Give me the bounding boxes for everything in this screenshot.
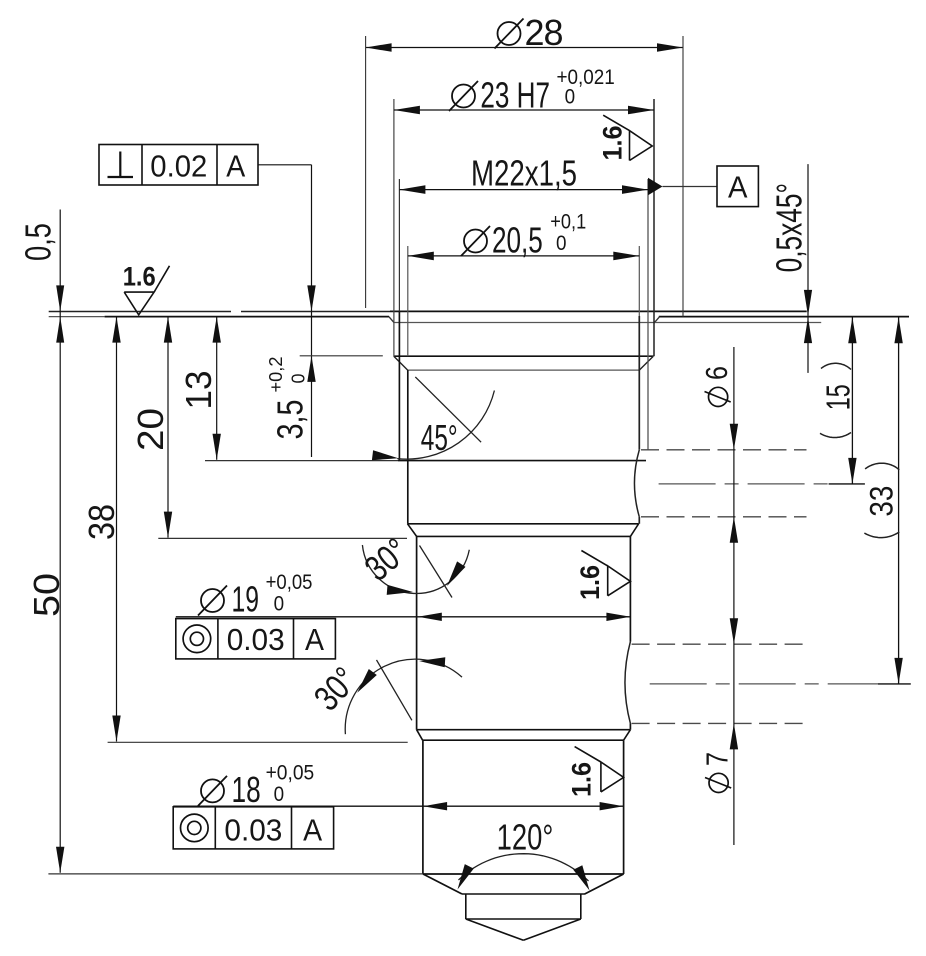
wire d7 centerline landing black [878, 683, 911, 685]
roughness symbol S3 [581, 551, 630, 596]
wire shaft d19 right edge lower [629, 723, 631, 729]
wire tip cone left [423, 874, 462, 894]
dimension 50 and 0.5 line [59, 210, 61, 873]
wire transition2 chamfer left [417, 730, 423, 741]
120deg arc [459, 854, 589, 881]
svg-text:0: 0 [274, 783, 285, 806]
wire d6 hole hidden bottom [641, 516, 807, 518]
svg-text:0.03: 0.03 [224, 812, 282, 847]
wire groove floor y370.15 [408, 369, 639, 371]
svg-text:20,5: 20,5 [492, 220, 543, 261]
svg-text:50: 50 [26, 573, 67, 617]
chamfer dim leader upper [807, 164, 809, 316]
wire shaft d18 right edge [623, 740, 625, 874]
arrow chamfer down [804, 290, 812, 316]
wire transition1 chamfer left [408, 524, 417, 537]
svg-text:A: A [305, 622, 324, 657]
svg-text:+0,05: +0,05 [266, 761, 315, 784]
arrow D20.5 right [613, 252, 639, 261]
wire groove chamfer right [639, 356, 653, 370]
arrow 15 down [848, 458, 856, 484]
arrow d7 down [730, 618, 738, 644]
diameter symbol D19 [201, 589, 224, 612]
wire d7 centerline [650, 683, 878, 685]
svg-text:120°: 120° [497, 817, 554, 858]
arrow d6 up [730, 517, 738, 543]
arrow 38 up [112, 317, 120, 343]
paren 15 upper [821, 363, 851, 369]
45deg arc [397, 391, 494, 460]
wire transition1 top y523.8 [408, 523, 639, 525]
wire bore d23 right x654 [653, 99, 655, 356]
dimension 33 line [898, 317, 900, 684]
arrow 3.5 up [307, 356, 315, 382]
svg-text:15: 15 [820, 384, 857, 410]
dimension 20 landing [158, 537, 407, 539]
svg-text:1.6: 1.6 [575, 565, 605, 600]
svg-text:0: 0 [274, 593, 285, 616]
FCF perpendicularity box [99, 145, 258, 186]
svg-text:23 H7: 23 H7 [480, 75, 550, 116]
wire d6 hole hidden top [641, 449, 807, 451]
svg-text:A: A [303, 812, 322, 847]
arrow 13 down [213, 434, 221, 460]
dimension 15 landing [829, 483, 865, 485]
svg-text:3,5: 3,5 [270, 400, 311, 440]
wire transition1 bottom y536.4 [417, 535, 631, 537]
arrow 20 down [164, 512, 172, 538]
dimension D18 line [173, 805, 623, 807]
wire break arc at d7 hole [625, 642, 630, 724]
paren 33 upper [865, 463, 899, 470]
45deg reference line [415, 377, 481, 442]
dimension D28 line [366, 47, 683, 49]
diameter symbol D28 [498, 22, 521, 45]
label d7 rotated [700, 752, 735, 793]
concentricity symbol D19 [183, 625, 211, 653]
dimension D28 ext right [682, 36, 684, 317]
wire thread major right x648 [647, 179, 649, 450]
dimension D23 line [394, 109, 654, 111]
wire d7 hole hidden bottom [632, 722, 809, 724]
wire shaft bottom y874 [423, 873, 624, 875]
svg-text:0.02: 0.02 [150, 149, 207, 184]
arrow 50 down [56, 847, 64, 873]
svg-text:1.6: 1.6 [567, 762, 597, 797]
svg-text:M22x1,5: M22x1,5 [471, 153, 577, 194]
dimension 50 landing [48, 873, 423, 875]
datum A box [717, 166, 758, 207]
arrow 30deg lower right [419, 657, 445, 667]
dimension D20.5 line [408, 255, 640, 257]
svg-text:0: 0 [556, 232, 567, 255]
dimension D28 ext left [365, 36, 367, 308]
datum A leader [663, 186, 718, 188]
arrow D18 right [600, 802, 624, 810]
chamfer dim leader lower [807, 317, 809, 373]
arrow d6 down [730, 424, 738, 450]
arrow D23 left [394, 106, 420, 115]
dimension M22 line [399, 189, 648, 191]
arrow D19 right [606, 613, 630, 621]
arrow 0.5 up [56, 317, 64, 343]
arrow 20 up [164, 317, 172, 343]
wire groove chamfer left [394, 356, 408, 370]
wire break arc at d6 hole [634, 450, 639, 517]
arrow D19 left [418, 613, 442, 621]
wire plate counterbore chamfer right [654, 317, 660, 324]
svg-text:+0,05: +0,05 [266, 571, 313, 594]
wire d7 hole hidden top [632, 643, 809, 645]
svg-text:0: 0 [289, 374, 309, 384]
dimension 20 line [167, 317, 169, 538]
wire top face line y311.5 [49, 311, 231, 313]
arrow 120deg left [458, 864, 474, 889]
svg-text:1.6: 1.6 [123, 262, 156, 292]
arrow D23 right [628, 106, 654, 115]
wire counterbore floor y322.5 [394, 322, 821, 324]
svg-text:20: 20 [130, 408, 171, 451]
svg-text:28: 28 [525, 12, 564, 53]
wire transition2 top y729.7 [417, 729, 631, 731]
wire bore d23 left x393.9 [393, 99, 395, 356]
arrow 45deg arc [372, 450, 398, 460]
arrow 38 down [112, 716, 120, 742]
svg-text:0,5x45°: 0,5x45° [769, 183, 810, 272]
arrow M22 left [399, 185, 425, 194]
wire transition1 chamfer right [630, 524, 638, 537]
dimension D19 line [176, 616, 631, 618]
perpendicularity symbol [119, 152, 121, 178]
arrow D20.5 left [408, 252, 434, 261]
d6 d7 leader line [733, 347, 735, 845]
svg-text:0: 0 [565, 86, 576, 109]
svg-text:+0,2: +0,2 [266, 357, 286, 393]
wire tip rect top y894 [462, 893, 585, 895]
svg-text:45°: 45° [421, 417, 458, 458]
arrow D28 right [657, 43, 683, 52]
dimension 38 line [116, 317, 118, 742]
wire tip point right [523, 919, 580, 940]
dimension 15 line [851, 317, 853, 484]
roughness symbol S2 [603, 115, 652, 160]
wire counterbore bottom y356.2 [394, 355, 654, 357]
FCF leader horizontal [258, 164, 312, 166]
wire thread minor right x639.3 [638, 246, 640, 316]
arrow D28 left [366, 43, 392, 52]
svg-text:6: 6 [699, 366, 734, 380]
wire shoulder line y460.6 [205, 460, 398, 462]
wire plate surface y316.6 right [659, 316, 909, 318]
svg-text:+0,1: +0,1 [550, 211, 586, 234]
wire shaft d19 left edge [416, 536, 418, 729]
wire d6 centerline [659, 483, 829, 485]
wire tip rect left [465, 894, 467, 919]
roughness symbol S4 [575, 747, 624, 792]
paren 33 lower [864, 532, 899, 538]
dimension 13 line [216, 317, 218, 460]
wire shaft d18 left edge [422, 740, 424, 874]
wire thread major left x399.4 [398, 179, 400, 311]
svg-text:A: A [226, 149, 245, 184]
svg-text:13: 13 [178, 371, 219, 410]
arrow D18 left [423, 802, 447, 810]
wire plate counterbore chamfer left [389, 317, 394, 323]
svg-text:0,5: 0,5 [18, 223, 59, 261]
wire tip point left [466, 919, 524, 940]
arrow 0.5 down [56, 285, 64, 311]
svg-text:A: A [728, 170, 748, 205]
arrow 30deg lower left [357, 669, 377, 693]
svg-text:18: 18 [232, 769, 261, 810]
diameter symbol D20.5 [464, 230, 487, 253]
arrow 15 up [848, 317, 856, 343]
arrow 30deg upper right [447, 561, 466, 586]
diameter symbol D23 [452, 85, 475, 108]
paren 15 lower [820, 433, 851, 438]
wire tip cone right [585, 874, 624, 894]
svg-text:38: 38 [81, 504, 122, 540]
arrow chamfer up [804, 317, 812, 343]
FCF concentricity box D18 [173, 807, 333, 849]
arrow 33 up [894, 317, 902, 343]
svg-text:1.6: 1.6 [598, 126, 628, 161]
30deg upper reference line [420, 546, 453, 598]
dimension 3.5 and FCF leader vertical [311, 165, 313, 457]
diameter symbol D18 [201, 779, 224, 802]
wire shaft d19 right edge upper [629, 536, 631, 641]
30deg lower reference line [377, 660, 412, 720]
svg-text:7: 7 [700, 752, 735, 766]
arrow 33 down [894, 658, 902, 684]
30deg lower arc [345, 659, 462, 734]
wire thread minor left x407.8 [407, 246, 409, 356]
30deg upper arc [362, 545, 469, 593]
arrow 120deg right [573, 865, 589, 890]
roughness symbol S1 [124, 266, 169, 315]
label d6 rotated [699, 366, 734, 407]
wire plate surface y316.6 left [49, 316, 105, 318]
arrow 13 up [213, 317, 221, 343]
arrow d7 up [730, 723, 738, 749]
svg-text:33: 33 [864, 486, 900, 517]
wire transition2 chamfer right [624, 730, 631, 741]
arrow FCF leader down [307, 285, 315, 311]
FCF concentricity box D19 [176, 619, 336, 659]
dimension 38 landing [108, 741, 408, 743]
dimension 3.5 landing [300, 355, 383, 357]
arrow M22 right [622, 185, 648, 194]
wire transition2 bottom y740.2 [423, 739, 624, 741]
wire tip rect right [580, 894, 582, 919]
svg-text:19: 19 [232, 579, 260, 620]
wire tip rect bottom y919 [466, 918, 581, 920]
datum A triangle [648, 178, 663, 196]
svg-text:0.03: 0.03 [227, 622, 285, 657]
concentricity symbol D18 [181, 814, 209, 842]
arrow 30deg upper left [387, 585, 413, 595]
